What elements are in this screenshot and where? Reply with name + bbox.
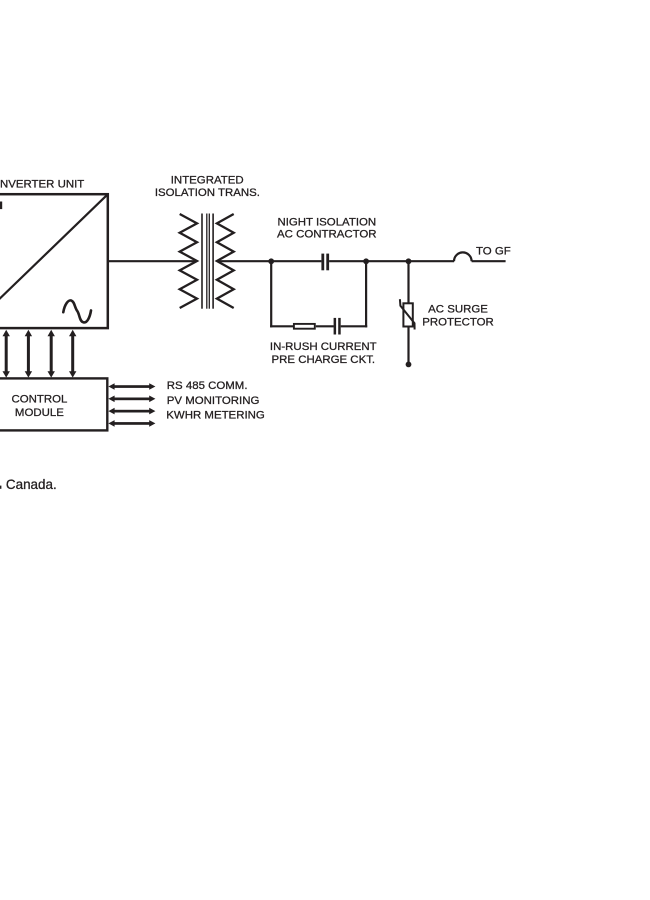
svg-text:IN-RUSH CURRENT: IN-RUSH CURRENT — [270, 341, 377, 353]
transformer T1 secondary winding (right zigzag) — [217, 214, 234, 308]
node B junction dot — [363, 258, 369, 264]
svg-text:AC CONTRACTOR: AC CONTRACTOR — [277, 229, 377, 241]
period of cut-off sentence at left edge — [0, 486, 1, 489]
svg-text:INVERTER UNIT: INVERTER UNIT — [0, 179, 84, 191]
svg-text:ISOLATION TRANS.: ISOLATION TRANS. — [155, 187, 260, 199]
in-rush bottom wire middle segment — [316, 325, 334, 327]
svg-text:AC SURGE: AC SURGE — [428, 304, 488, 316]
resistor R1 (pre-charge) — [294, 324, 315, 329]
bus arrow 2 — [25, 330, 32, 378]
comm arrow 2 — [108, 396, 155, 403]
AC sine wave symbol — [63, 300, 91, 322]
wire inverter to transformer — [108, 260, 197, 262]
comm arrow 3 — [108, 408, 155, 415]
inverter diagonal (DC/AC divider) — [0, 195, 107, 328]
svg-text:CONTROL: CONTROL — [11, 394, 67, 406]
varistor RV1 (AC surge protector) body — [403, 303, 412, 326]
label IN-RUSH CURRENT / PRE CHARGE CKT. — [270, 341, 377, 366]
node C junction dot — [406, 258, 412, 264]
in-rush bottom wire left segment — [270, 325, 294, 327]
wire node B to node C — [366, 260, 408, 262]
wire contactor to node B — [329, 260, 366, 262]
svg-text:Canada.: Canada. — [6, 477, 57, 492]
arrow stub at left edge into inverter — [0, 202, 2, 210]
in-rush branch right drop wire — [365, 261, 367, 327]
wire node C toward grid — [409, 260, 455, 262]
svg-text:NIGHT ISOLATION: NIGHT ISOLATION — [277, 216, 376, 228]
inverter unit box U1 — [0, 194, 108, 328]
svg-text:PV MONITORING: PV MONITORING — [167, 395, 260, 407]
in-rush branch left drop wire — [270, 261, 272, 327]
surge branch wire lower — [407, 327, 409, 365]
wire transformer to node A — [217, 260, 271, 262]
label CONTROL MODULE — [11, 394, 67, 419]
wire hop to grid edge — [472, 260, 506, 262]
in-rush bottom wire right segment — [341, 325, 368, 327]
svg-text:PROTECTOR: PROTECTOR — [422, 317, 494, 329]
surge protector terminal dot — [406, 362, 412, 368]
svg-text:INTEGRATED: INTEGRATED — [171, 175, 244, 187]
transformer T1 core (4 lamination lines) — [202, 214, 213, 309]
contactor K1 (NIGHT ISOLATION AC CONTRACTOR) contact bars — [321, 254, 329, 271]
control module box — [0, 378, 107, 430]
comm arrow 4 — [108, 420, 155, 427]
node A junction dot — [268, 258, 274, 264]
svg-text:KWHR METERING: KWHR METERING — [166, 410, 265, 422]
varistor diagonal stroke — [400, 299, 415, 329]
wire node A to contactor — [271, 260, 321, 262]
svg-text:PRE CHARGE CKT.: PRE CHARGE CKT. — [272, 354, 376, 366]
label NIGHT ISOLATION / AC CONTRACTOR — [277, 216, 377, 240]
svg-text:RS 485 COMM.: RS 485 COMM. — [167, 380, 248, 392]
wire hop (half-circle jump) — [454, 252, 472, 261]
capacitor C1 (pre-charge) bars — [334, 318, 341, 335]
label AC SURGE / PROTECTOR — [422, 304, 494, 329]
svg-text:MODULE: MODULE — [15, 407, 64, 419]
bus arrow 4 — [69, 330, 76, 378]
transformer T1 primary winding (left zigzag) — [180, 214, 197, 308]
bus arrow 3 — [48, 330, 55, 378]
surge branch wire upper — [407, 261, 409, 303]
comm arrow 1 (RS485) — [108, 383, 155, 390]
label INTEGRATED ISOLATION TRANS. — [155, 175, 260, 199]
svg-text:TO GF: TO GF — [476, 246, 511, 258]
bus arrow 1 (inverter to control module) — [3, 330, 10, 378]
